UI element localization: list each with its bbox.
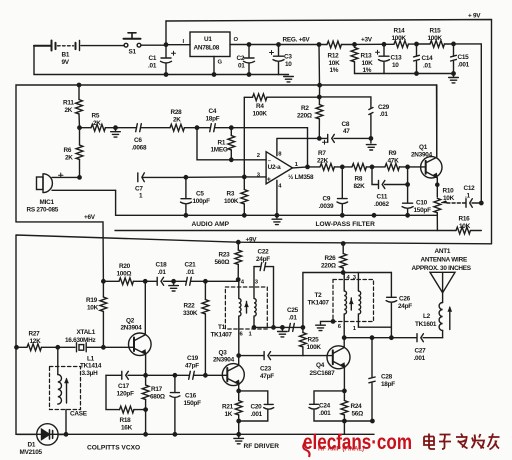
svg-text:.01: .01: [380, 111, 389, 118]
svg-text:120pF: 120pF: [117, 391, 135, 398]
svg-text:L1: L1: [87, 355, 95, 362]
svg-text:47: 47: [343, 128, 350, 135]
svg-text:C28: C28: [381, 373, 393, 380]
svg-text:R28: R28: [171, 109, 183, 116]
node C4-R1 right: [230, 126, 233, 129]
svg-text:ANT1: ANT1: [435, 248, 451, 255]
resistor R24: [341, 391, 348, 434]
capacitor C1: [161, 45, 176, 75]
label Q1: [411, 144, 433, 159]
capacitor C25: [289, 323, 295, 331]
node C11-top: [370, 165, 373, 168]
svg-text:T1: T1: [218, 324, 226, 331]
node T2-top: [342, 271, 345, 274]
svg-text:100K: 100K: [224, 198, 239, 205]
node C9-gnd: [341, 214, 344, 217]
wire C4R1 loop: [197, 128, 231, 160]
svg-text:C5: C5: [196, 191, 204, 198]
svg-text:B1: B1: [62, 52, 70, 59]
node C2-gnd: [247, 73, 250, 76]
svg-text:10: 10: [392, 62, 399, 69]
svg-text:R7: R7: [318, 150, 326, 157]
capacitor C26: [386, 273, 397, 338]
svg-text:C21: C21: [185, 261, 197, 268]
wire pin3 row: [186, 176, 266, 178]
svg-text:.01: .01: [423, 63, 432, 70]
label Q4: [310, 362, 336, 377]
node T1-pin1: [252, 326, 255, 329]
svg-text:C17: C17: [118, 383, 130, 390]
wire U1 ground pin: [213, 57, 215, 75]
svg-text:C7: C7: [135, 186, 143, 193]
svg-text:G: G: [218, 60, 223, 66]
label Q2: [121, 317, 143, 331]
svg-text:APPROX. 30 INCHES: APPROX. 30 INCHES: [412, 265, 472, 272]
transistor Q1: [421, 85, 442, 197]
svg-text:Q4: Q4: [316, 362, 325, 369]
svg-text:TK1407: TK1407: [308, 299, 330, 306]
svg-text:C20: C20: [251, 403, 263, 410]
svg-text:9V: 9V: [62, 59, 70, 66]
transformer T2: [333, 273, 391, 338]
label U1: [183, 36, 239, 66]
capacitor C27: [417, 334, 443, 342]
svg-text:+3V: +3V: [361, 37, 373, 44]
node xtal-R19: [102, 346, 105, 349]
svg-text:10K: 10K: [329, 60, 341, 67]
wire ground bus audio: [116, 214, 438, 216]
svg-text:L2: L2: [423, 313, 431, 320]
node L1-case-bus: [64, 433, 67, 436]
svg-text:R10: R10: [443, 187, 455, 194]
wire +9V top rail: [166, 20, 492, 244]
resistor R16: [456, 227, 470, 234]
svg-text:100K: 100K: [307, 344, 322, 351]
label T2: [308, 275, 357, 332]
svg-text:C1: C1: [149, 55, 157, 62]
ground T2-shield: [316, 320, 335, 331]
wire +3V row: [355, 43, 395, 45]
label R15: [428, 28, 443, 43]
svg-text:Q2: Q2: [126, 317, 135, 324]
label C15: [458, 54, 470, 69]
svg-text:100K: 100K: [392, 35, 407, 42]
label C1: [148, 55, 157, 70]
svg-text:10K: 10K: [459, 223, 471, 230]
resistor R4: [244, 94, 319, 101]
ground bias-rail: [449, 74, 459, 83]
wire opamp output: [293, 167, 321, 168]
resistor R9: [385, 164, 426, 171]
capacitor C20: [239, 391, 274, 421]
svg-text:REG. +6V: REG. +6V: [283, 37, 311, 44]
capacitor C21: [174, 277, 239, 285]
svg-text:.001: .001: [458, 62, 470, 69]
ground T1-out: [278, 326, 288, 337]
label L2: [415, 313, 437, 328]
svg-text:C19: C19: [187, 355, 199, 362]
label R19: [86, 297, 99, 312]
varactor D1: [17, 424, 66, 445]
node pin2: [230, 158, 233, 161]
capacitor C17: [106, 371, 146, 379]
label C17: [117, 383, 135, 398]
transistor Q2: [129, 281, 152, 375]
svg-text:C22: C22: [258, 248, 270, 255]
box audio amp: [16, 85, 481, 231]
capacitor C23: [239, 352, 303, 360]
wire pin2: [231, 159, 266, 161]
svg-text:C18: C18: [156, 261, 168, 268]
svg-text:R2: R2: [301, 105, 309, 112]
svg-text:47K: 47K: [388, 157, 400, 164]
capacitor C4: [210, 124, 308, 132]
label R9: [388, 150, 400, 165]
svg-text:1K: 1K: [225, 411, 233, 418]
label C16: [184, 393, 202, 408]
resistor R22: [202, 281, 209, 375]
svg-text:2N3904: 2N3904: [411, 151, 433, 158]
resistor R26: [340, 244, 347, 273]
label C22: [256, 248, 270, 262]
node T2-out-row: [390, 336, 393, 339]
node C15: [452, 42, 455, 45]
label T1: [211, 279, 259, 338]
microphone MIC1: [37, 173, 116, 193]
label XTAL1: [65, 329, 96, 344]
capacitor C13: [376, 43, 390, 74]
capacitor C15: [451, 44, 457, 74]
capacitor C5: [181, 177, 192, 215]
svg-text:TK1601: TK1601: [415, 321, 437, 328]
label Q3: [213, 349, 235, 363]
node L1-tap: [56, 346, 59, 349]
node C11-C10: [406, 183, 409, 186]
node Q4-collector: [343, 336, 346, 339]
label C23: [260, 365, 274, 380]
svg-text:R25: R25: [308, 337, 320, 344]
capacitor C22: [254, 263, 274, 328]
label R7: [317, 150, 329, 165]
svg-text:AUDIO AMP: AUDIO AMP: [192, 221, 230, 228]
svg-text:T2: T2: [315, 292, 323, 299]
svg-text:C27: C27: [415, 348, 427, 355]
svg-text:18pF: 18pF: [381, 381, 395, 388]
svg-text:C25: C25: [287, 307, 299, 314]
svg-text:220Ω: 220Ω: [321, 262, 336, 269]
node Q4-emitter: [343, 389, 346, 392]
label R17: [150, 386, 165, 401]
resistor R13: [351, 44, 358, 73]
svg-text:Q1: Q1: [419, 144, 428, 151]
svg-text:100K: 100K: [428, 35, 443, 42]
wire T1 secondary out: [254, 326, 303, 328]
svg-text:Q3: Q3: [219, 349, 228, 356]
label R24: [351, 403, 364, 418]
svg-text:C13: C13: [391, 55, 403, 62]
svg-text:C10: C10: [416, 199, 428, 206]
capacitor C11: [372, 167, 408, 189]
svg-text:D1: D1: [28, 442, 36, 449]
transformer T1: [225, 267, 267, 356]
label C6: [132, 137, 147, 152]
svg-text:C14: C14: [422, 55, 434, 62]
capacitor C29: [319, 97, 373, 138]
svg-text:MV2105: MV2105: [20, 449, 43, 456]
label C28: [381, 373, 395, 388]
capacitor C28: [369, 338, 375, 421]
node R17-R18: [144, 408, 147, 411]
svg-text:82K: 82K: [354, 183, 366, 190]
svg-text:C24: C24: [319, 402, 331, 409]
resistor R7: [320, 164, 352, 171]
node C25-R25: [301, 326, 304, 329]
label R18: [120, 417, 133, 432]
svg-text:22K: 22K: [317, 157, 329, 164]
svg-text:R11: R11: [63, 100, 74, 107]
svg-text:RF DRIVER: RF DRIVER: [244, 443, 280, 450]
label C20: [251, 403, 263, 418]
resistor R27: [15, 344, 75, 351]
svg-text:R22: R22: [184, 303, 196, 310]
svg-text:C26: C26: [399, 295, 411, 302]
node C10-gnd: [406, 214, 409, 217]
label ANT1: [412, 248, 472, 272]
label MIC1: [27, 199, 59, 214]
node C28-top: [370, 336, 373, 339]
svg-text:R6: R6: [64, 147, 72, 154]
svg-text:2N3904: 2N3904: [121, 325, 143, 332]
svg-text:1%: 1%: [363, 67, 372, 74]
wire ground bus top: [34, 74, 279, 76]
svg-text:2K: 2K: [173, 117, 181, 124]
node C8-C29-gnd: [369, 137, 372, 140]
wire pin8: [277, 138, 319, 155]
node C16-top: [173, 374, 176, 377]
svg-text:R4: R4: [256, 103, 264, 110]
svg-text:56Ω: 56Ω: [352, 411, 364, 418]
capacitor C16: [170, 375, 180, 434]
label R1: [211, 139, 228, 153]
wire +9V riser: [165, 21, 167, 45]
label R5: [92, 113, 102, 128]
wire +6V feed to box: [317, 43, 320, 86]
node R3-top: [243, 175, 246, 178]
wire C17-R18 left: [106, 375, 120, 409]
svg-text:10K: 10K: [362, 60, 374, 67]
node pin4-gnd: [275, 214, 278, 217]
svg-text:.01: .01: [289, 315, 298, 322]
resistor R25: [300, 327, 307, 355]
svg-text:100K: 100K: [253, 110, 268, 117]
svg-text:R18: R18: [120, 417, 132, 424]
label C19: [185, 355, 199, 370]
resistor R11: [76, 85, 83, 128]
svg-text:R3: R3: [227, 191, 235, 198]
svg-text:1MEG: 1MEG: [211, 147, 228, 154]
resistor R6: [76, 128, 83, 178]
label C10: [414, 199, 432, 214]
label R16: [459, 216, 471, 231]
node +9V R23 tap: [237, 241, 240, 244]
crystal XTAL1: [77, 343, 135, 352]
node C12-rail: [480, 201, 483, 204]
svg-text:.1: .1: [465, 193, 471, 200]
label R6: [64, 147, 74, 162]
watermark chinese characters: [424, 434, 500, 450]
capacitor C3: [270, 43, 285, 75]
svg-text:R19: R19: [86, 297, 98, 304]
svg-text:2SC1687: 2SC1687: [310, 370, 336, 377]
node C5-gnd: [184, 214, 187, 217]
svg-text:C9: C9: [323, 195, 331, 202]
svg-text:R17: R17: [151, 386, 163, 393]
svg-text:R5: R5: [92, 113, 100, 120]
node C5-top: [184, 176, 187, 179]
label C8: [342, 121, 351, 135]
label R4: [253, 103, 268, 117]
node C15-rail: [452, 72, 455, 75]
node Q3-gnd-bus: [237, 433, 240, 436]
label R11: [63, 100, 74, 115]
label C11: [374, 194, 389, 209]
wire T2 top row: [343, 272, 391, 274]
svg-text:R21: R21: [222, 403, 234, 410]
svg-text:.0062: .0062: [374, 201, 389, 208]
label R22: [183, 303, 198, 318]
capacitor C14: [414, 44, 420, 74]
label R23: [215, 251, 231, 266]
capacitor C19: [146, 371, 228, 379]
switch S1: [124, 33, 167, 47]
svg-text:XTAL1: XTAL1: [77, 329, 96, 336]
node R11-top: [77, 83, 80, 86]
node C9-top: [341, 165, 344, 168]
svg-text:C4: C4: [209, 108, 217, 115]
node Q3-collector: [237, 354, 240, 357]
svg-text:C2: C2: [237, 55, 245, 62]
label R25: [307, 337, 322, 352]
wire +6V exit: [16, 222, 103, 281]
svg-text:220Ω: 220Ω: [297, 112, 312, 119]
svg-text:12K: 12K: [30, 338, 42, 345]
label C18: [156, 261, 168, 276]
regulator U1: [166, 32, 327, 57]
svg-text:330K: 330K: [183, 310, 198, 317]
node R11-R5-R6: [78, 126, 81, 129]
resistor R2: [316, 85, 323, 138]
label C27: [414, 348, 427, 363]
svg-text:R14: R14: [394, 28, 406, 35]
resistor R23: [235, 242, 242, 279]
label R3: [224, 191, 239, 206]
label C4: [206, 108, 220, 123]
svg-text:ANTENNA WIRE: ANTENNA WIRE: [421, 256, 468, 263]
transistor Q3: [222, 356, 244, 391]
wire battery left return: [33, 46, 35, 75]
svg-text:100Ω: 100Ω: [117, 271, 132, 278]
label R8: [354, 176, 366, 191]
svg-text:16.630MHz: 16.630MHz: [65, 337, 95, 344]
svg-text:3.3µH: 3.3µH: [82, 370, 99, 377]
svg-text:MIC1: MIC1: [40, 199, 55, 206]
node +9V R26 tap: [342, 242, 345, 245]
svg-text:C16: C16: [185, 393, 197, 400]
svg-text:C12: C12: [464, 185, 476, 192]
transistor Q4: [303, 338, 350, 391]
resistor R3: [241, 177, 248, 215]
svg-text:R8: R8: [355, 176, 363, 183]
resistor R1: [228, 128, 235, 160]
svg-text:18pF: 18pF: [206, 116, 220, 123]
resistor R18: [120, 406, 146, 413]
resistor R5: [80, 124, 137, 131]
label C21: [185, 261, 197, 276]
capacitor C8: [319, 134, 371, 144]
svg-text:C8: C8: [342, 121, 350, 128]
svg-text:C6: C6: [134, 137, 142, 144]
label R14: [392, 28, 407, 43]
svg-text:O: O: [234, 37, 239, 43]
node C28-C24: [371, 419, 374, 422]
ground C29: [366, 138, 376, 150]
svg-text:.001: .001: [414, 355, 426, 362]
node Q3-base: [204, 374, 207, 377]
label C24: [319, 402, 331, 417]
wire C25 riser to T2: [303, 273, 343, 328]
ground C18-C21: [169, 280, 179, 291]
label C12: [464, 185, 476, 200]
svg-text:U2-a: U2-a: [268, 164, 282, 171]
op-amp U2-a: [266, 152, 292, 184]
label C3: [284, 54, 292, 69]
node R22-top: [204, 280, 207, 283]
svg-text:TK1414: TK1414: [80, 363, 102, 370]
node Q3-emitter: [237, 389, 240, 392]
svg-text:01: 01: [238, 63, 245, 70]
svg-text:150pF: 150pF: [414, 207, 432, 214]
node Q2-emitter: [144, 374, 147, 377]
capacitor C12: [466, 199, 481, 208]
svg-text:10: 10: [285, 61, 292, 68]
svg-text:LOW-PASS FILTER: LOW-PASS FILTER: [316, 221, 376, 228]
ground op-amp: [272, 215, 282, 224]
svg-text:U1: U1: [204, 36, 212, 43]
svg-text:+: +: [267, 176, 271, 183]
wire bus-left-drop: [115, 190, 117, 215]
label R13: [361, 53, 374, 75]
svg-text:2N3904: 2N3904: [213, 356, 235, 363]
svg-text:10K: 10K: [87, 305, 99, 312]
svg-text:R23: R23: [219, 251, 231, 258]
node R17-bus: [144, 433, 147, 436]
label R12: [328, 53, 341, 75]
label C9: [319, 195, 334, 210]
label C7: [135, 186, 143, 200]
svg-text:2K: 2K: [65, 107, 73, 114]
svg-text:150pF: 150pF: [184, 400, 202, 407]
svg-text:10K: 10K: [443, 195, 455, 202]
label C2: [237, 55, 246, 70]
label R20: [117, 263, 132, 278]
resistor R28: [170, 124, 211, 131]
label D1: [20, 442, 43, 457]
wire collector row: [344, 337, 416, 339]
resistor R19: [100, 281, 107, 347]
label R28: [171, 109, 183, 124]
wire bias gnd rail: [355, 73, 454, 75]
svg-text:100pF: 100pF: [193, 198, 211, 205]
